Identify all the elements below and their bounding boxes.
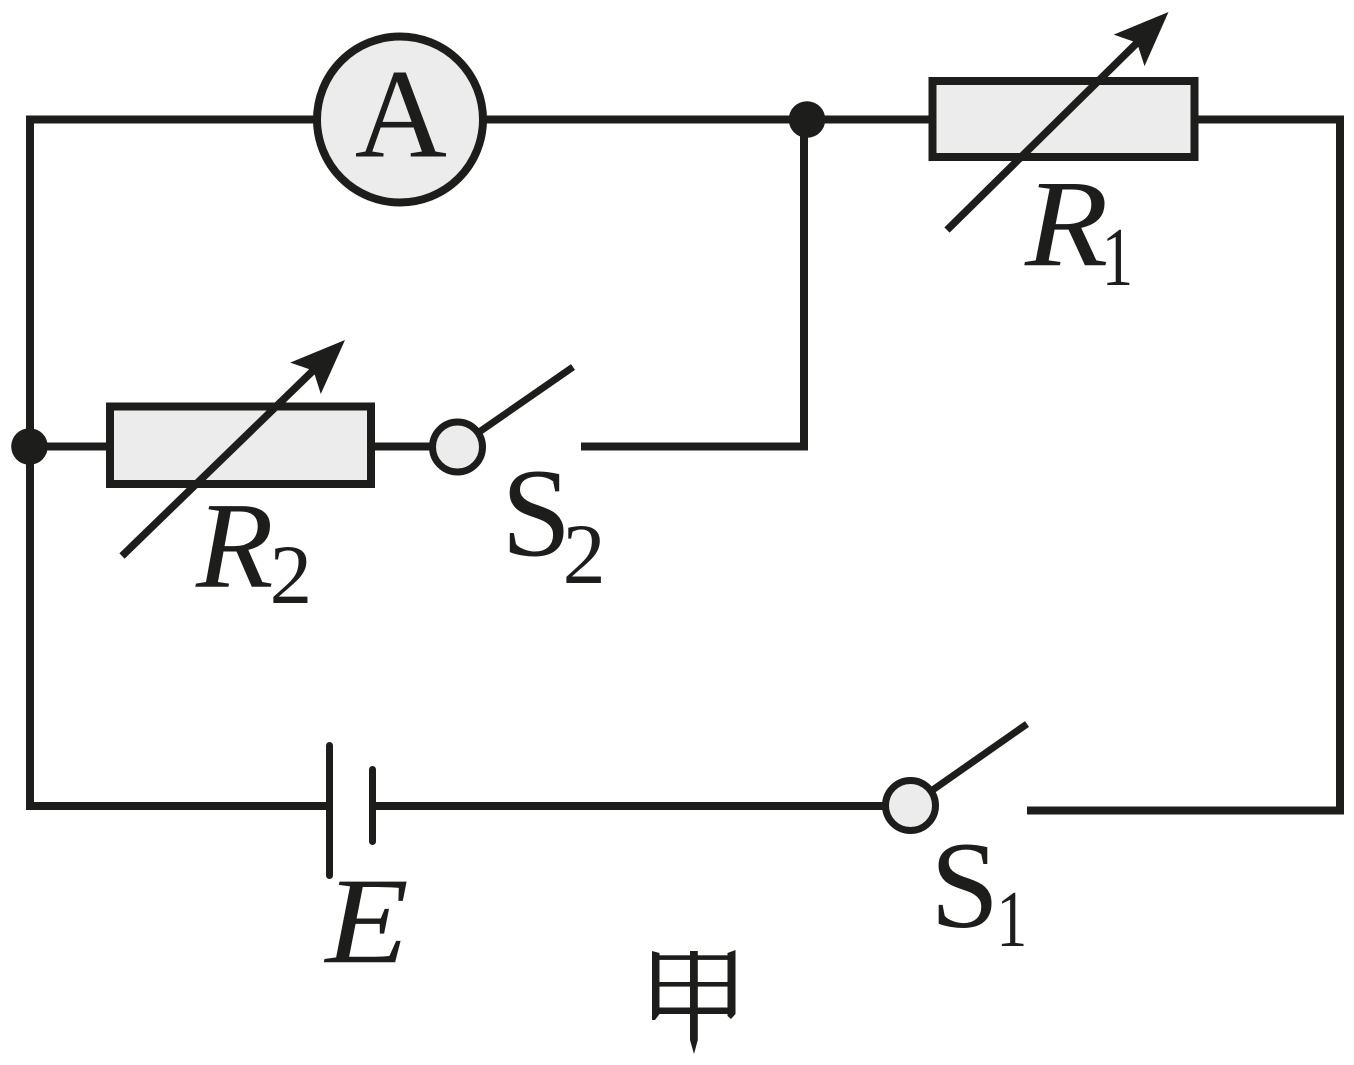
svg-text:2: 2 [563, 506, 606, 602]
switch S1 lever [911, 724, 1028, 806]
label jia (Chinese character, drawn) [652, 950, 736, 1054]
resistor R2 (rheostat box) [110, 340, 371, 556]
svg-text:1: 1 [1102, 211, 1133, 304]
svg-text:S: S [501, 445, 571, 584]
label R2 [195, 477, 312, 622]
wire: left edge vertical [26, 116, 34, 811]
wire: top from left edge through ammeter to R1 left [30, 116, 932, 124]
switch S1 pivot circle [886, 781, 936, 831]
wire: left node to R2 [30, 443, 110, 451]
battery E long plate [326, 746, 333, 876]
label R1 [1024, 155, 1133, 304]
wire: middle vertical from junction down then left to S2 gap [581, 120, 804, 447]
wire: R2 to switch S2 [371, 443, 458, 451]
svg-text:R: R [195, 477, 274, 614]
svg-text:E: E [323, 852, 409, 989]
wire: R1 right, right edge down, bottom-right to S1 gap [1027, 120, 1340, 811]
battery E short plate [369, 770, 376, 842]
label S2 [501, 445, 605, 602]
svg-text:A: A [355, 43, 447, 185]
node dot left [11, 428, 48, 465]
wire: battery short plate to switch S1 [373, 802, 910, 810]
ammeter A [317, 37, 483, 203]
resistor R1 (rheostat box) [933, 12, 1195, 230]
node junction dot top [789, 101, 826, 138]
svg-text:R: R [1024, 155, 1109, 292]
switch S2 lever [458, 367, 574, 447]
svg-text:S: S [930, 817, 999, 954]
switch S2 pivot circle [433, 422, 483, 472]
wire: bottom-left to battery long plate [26, 802, 329, 810]
svg-text:2: 2 [270, 528, 313, 622]
svg-text:1: 1 [997, 874, 1028, 964]
label S1 [930, 817, 1027, 964]
